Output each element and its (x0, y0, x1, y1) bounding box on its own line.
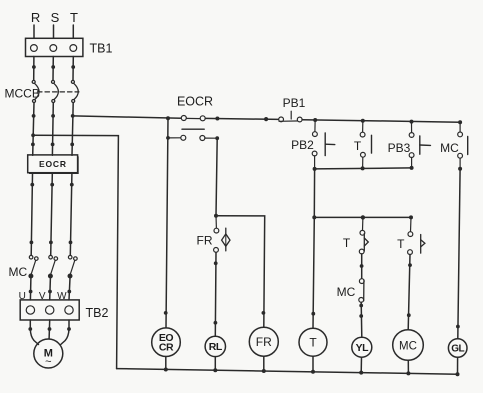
junction rail / T branch (361, 119, 365, 123)
wire: T contact to MC contact (YL branch) (361, 254, 363, 279)
wire T: TB1 to MCCB (72, 57, 74, 81)
wire rail: EOCR contact to PB1 (205, 118, 279, 119)
junction above RL lamp (214, 321, 218, 325)
wire control rail: T tap to EOCR contact (73, 116, 182, 118)
junction bus / T (311, 370, 315, 374)
contactor MC pole T (68, 255, 77, 277)
svg-text:YL: YL (356, 342, 370, 354)
junction below FR contact (214, 261, 218, 265)
wire: MC contact to YL lamp (360, 302, 363, 337)
wire: FR coil to bus (263, 356, 265, 371)
label PB3 (388, 141, 411, 155)
coil MC (contactor coil) (393, 330, 424, 361)
junction bus / EOCR coil (164, 368, 168, 372)
svg-text:CR: CR (159, 342, 174, 354)
label T (aux contact) (354, 139, 362, 153)
junction R below EOCR box (30, 183, 34, 187)
svg-text:S: S (51, 10, 60, 25)
lamp YL (352, 337, 372, 357)
label MCCB (5, 87, 40, 101)
contactor MC pole S (49, 255, 58, 277)
wire T: MC to TB2 (69, 278, 70, 300)
terminal block TB2 (20, 300, 79, 320)
junction R control tap (31, 133, 35, 137)
junction T row2 (70, 143, 74, 147)
pin label U (19, 291, 26, 302)
wire T lead-in (72, 25, 74, 38)
wire: FR tee to FR coil (over and down) (216, 216, 265, 328)
svg-text:PB1: PB1 (283, 96, 306, 110)
svg-text:T: T (309, 336, 317, 350)
breaker MCCB pole R (32, 80, 39, 102)
junction T above MC (69, 241, 73, 245)
svg-text:T: T (343, 236, 351, 250)
junction S row1 (51, 114, 55, 118)
relay EOCR (overcurrent element box) (28, 155, 78, 174)
svg-text:MCCB: MCCB (5, 87, 40, 101)
node T (phase label) (70, 10, 78, 25)
junction T above TB2 (67, 290, 71, 294)
wire S: TB1 to MCCB (52, 57, 54, 81)
junction FR tee (214, 214, 218, 218)
contact T timed (MC branch) (408, 217, 425, 254)
pin label V (39, 291, 46, 302)
svg-text:MC: MC (9, 265, 28, 279)
label MC (aux contact, YL branch) (337, 285, 356, 299)
label FR (flicker contact) (197, 234, 213, 248)
wire: bus1 down to bus2 (313, 169, 315, 218)
junction bus / FR (262, 369, 266, 373)
wire W: TB2 to motor (61, 320, 69, 345)
svg-text:T: T (354, 139, 362, 153)
label PB1 (283, 96, 306, 110)
pushbutton PB2 (NO branch) (312, 122, 335, 169)
junction above GL lamp (456, 325, 460, 329)
junction bus1 middle (361, 166, 365, 170)
svg-text:TB1: TB1 (90, 42, 113, 56)
wire: bus2 down to T coil (313, 217, 314, 328)
wire: YL to bus (360, 357, 362, 372)
wire S: MCCB to EOCR box (51, 103, 54, 156)
junction bus / RL (213, 368, 217, 372)
junction above FR coil (262, 311, 266, 315)
wire: FR contact to RL lamp (214, 252, 217, 336)
svg-text:PB3: PB3 (388, 141, 411, 155)
pin label W (57, 291, 67, 302)
lamp GL (448, 339, 467, 358)
wire S lead-in (53, 25, 55, 38)
pushbutton PB3 (NO branch) (409, 124, 430, 168)
node S (phase label) (51, 10, 60, 25)
junction rail right of EOCR contact (215, 117, 219, 121)
contact T NO (self-hold branch) (360, 123, 371, 169)
wire U: TB2 to motor (30, 320, 38, 345)
wire: rail junction down to EOCR coil (166, 118, 168, 328)
junction rail before PB1 (264, 117, 268, 121)
junction S below EOCR box (50, 183, 54, 187)
junction rail end / MC branch (458, 120, 462, 124)
wire: T coil to bus (312, 356, 314, 372)
label TB1 (90, 42, 113, 56)
junction EOCR NO left (166, 136, 170, 140)
svg-text:T: T (397, 237, 405, 251)
coil EOCR (relay element) (152, 328, 181, 357)
wire: R control tap to left return rail (33, 135, 118, 368)
junction R below TB1 (32, 65, 36, 69)
junction YL lower (359, 314, 363, 318)
breaker MCCB pole S (52, 80, 59, 102)
wire R: TB1 to MCCB (33, 57, 35, 81)
wire R: EOCR box to MC contactor (31, 174, 32, 255)
junction bus / GL (end) (456, 372, 460, 376)
coil T (timer) (299, 328, 327, 356)
svg-text:MC: MC (399, 340, 417, 352)
wire: T contact to MC coil (408, 255, 410, 330)
junction bus1 right (410, 166, 414, 170)
label T (timer delay contact, MC branch) (397, 237, 405, 251)
contact MC NO (GL branch) (458, 124, 468, 169)
junction W (67, 327, 71, 331)
contact EOCR NO (test row) (168, 135, 217, 140)
wire bus1 (below PB2/T/PB3) (315, 168, 412, 169)
svg-text:PB2: PB2 (291, 138, 314, 152)
wire T: MCCB to EOCR box (72, 103, 73, 156)
junction rail / PB3 branch (410, 120, 414, 124)
junction bus / MC (406, 371, 410, 375)
svg-text:EOCR: EOCR (177, 95, 213, 109)
wire rail: PB1 to end (302, 120, 460, 123)
junction GL branch below MC contact (458, 167, 462, 171)
wire: RL to bus (214, 357, 216, 371)
svg-text:R: R (31, 10, 40, 25)
label EOCR (contact) (177, 95, 213, 109)
junction YL upper (359, 304, 363, 308)
junction below T contact (MC branch) (408, 263, 412, 267)
MCCB linkage (dashed) (38, 91, 80, 93)
contact EOCR NC (b-contact on rail) (181, 116, 205, 130)
wire S: MC to TB2 (49, 278, 52, 300)
wire: MC coil to bus (407, 360, 409, 373)
label MC (aux contact, GL branch) (440, 141, 459, 155)
wire T: EOCR box to MC contactor (70, 174, 72, 255)
junction T row1 (control rail tap) (71, 114, 75, 118)
svg-text:TB2: TB2 (86, 306, 109, 320)
svg-text:FR: FR (197, 234, 213, 248)
contact FR flicker (RL branch) (214, 216, 230, 253)
svg-text:GL: GL (451, 344, 464, 355)
contact T timed (YL branch) (359, 217, 368, 254)
junction bus1 left (313, 167, 317, 171)
label EOCR (box) (39, 159, 67, 169)
junction R row1 (32, 114, 36, 118)
label TB2 (86, 306, 109, 320)
wire R: MCCB to EOCR box (33, 103, 34, 156)
motor M (34, 339, 63, 368)
svg-text:T: T (70, 10, 78, 25)
junction T below EOCR box (70, 183, 74, 187)
pushbutton PB1 (NO, on rail) (279, 111, 302, 122)
label T (timer delay contact, YL branch) (343, 236, 351, 250)
wire R: MC to TB2 (29, 278, 32, 300)
junction bus2 left (312, 215, 316, 219)
breaker MCCB pole T (71, 80, 78, 102)
junction R row2 (31, 143, 35, 147)
terminal block TB1 (26, 38, 83, 56)
junction rail at EOCR branch (166, 116, 170, 120)
svg-text:FR: FR (256, 335, 272, 349)
wire: GL to bus (457, 357, 459, 374)
wire V: TB2 to motor (48, 320, 51, 339)
label PB2 (291, 138, 314, 152)
junction S above MC (49, 241, 53, 245)
junction T below TB1 (71, 65, 75, 69)
svg-text:~: ~ (45, 356, 51, 368)
junction above EOCR coil (164, 311, 168, 315)
wire bus2 (T/YL/MC feeder) (314, 216, 411, 218)
lamp RL (205, 336, 225, 356)
junction bus2 middle (361, 215, 365, 219)
label MC (contactor) (9, 265, 28, 279)
coil FR (flicker relay) (249, 327, 278, 356)
wire: EOCR coil to bus (165, 357, 167, 370)
wire: MC contact to GL lamp (458, 169, 460, 339)
contact MC NO (YL branch) (359, 279, 364, 303)
junction R above MC (30, 241, 34, 245)
node R (phase label) (31, 10, 40, 25)
junction above MC coil (407, 313, 411, 317)
svg-text:RL: RL (209, 341, 223, 353)
svg-text:MC: MC (337, 285, 356, 299)
junction YL branch (360, 264, 364, 268)
junction S below TB1 (51, 65, 55, 69)
junction above T coil (311, 312, 315, 316)
junction U (28, 327, 32, 331)
contactor MC pole R (29, 255, 38, 277)
svg-text:EOCR: EOCR (39, 159, 67, 169)
wire bottom bus (117, 369, 458, 375)
junction R above TB2 (29, 290, 33, 294)
junction EOCR NO right (215, 136, 219, 140)
junction rail / PB2 branch (313, 118, 317, 122)
svg-text:MC: MC (440, 141, 459, 155)
junction V (48, 327, 52, 331)
junction S row2 (51, 143, 55, 147)
junction S above TB2 (48, 290, 52, 294)
junction bus / YL (359, 371, 363, 375)
junction bus2 right (409, 215, 413, 219)
wire S: EOCR box to MC contactor (51, 174, 53, 255)
wire: EOCR NO contact down to FR junction (216, 138, 217, 216)
wire R lead-in (33, 25, 35, 38)
